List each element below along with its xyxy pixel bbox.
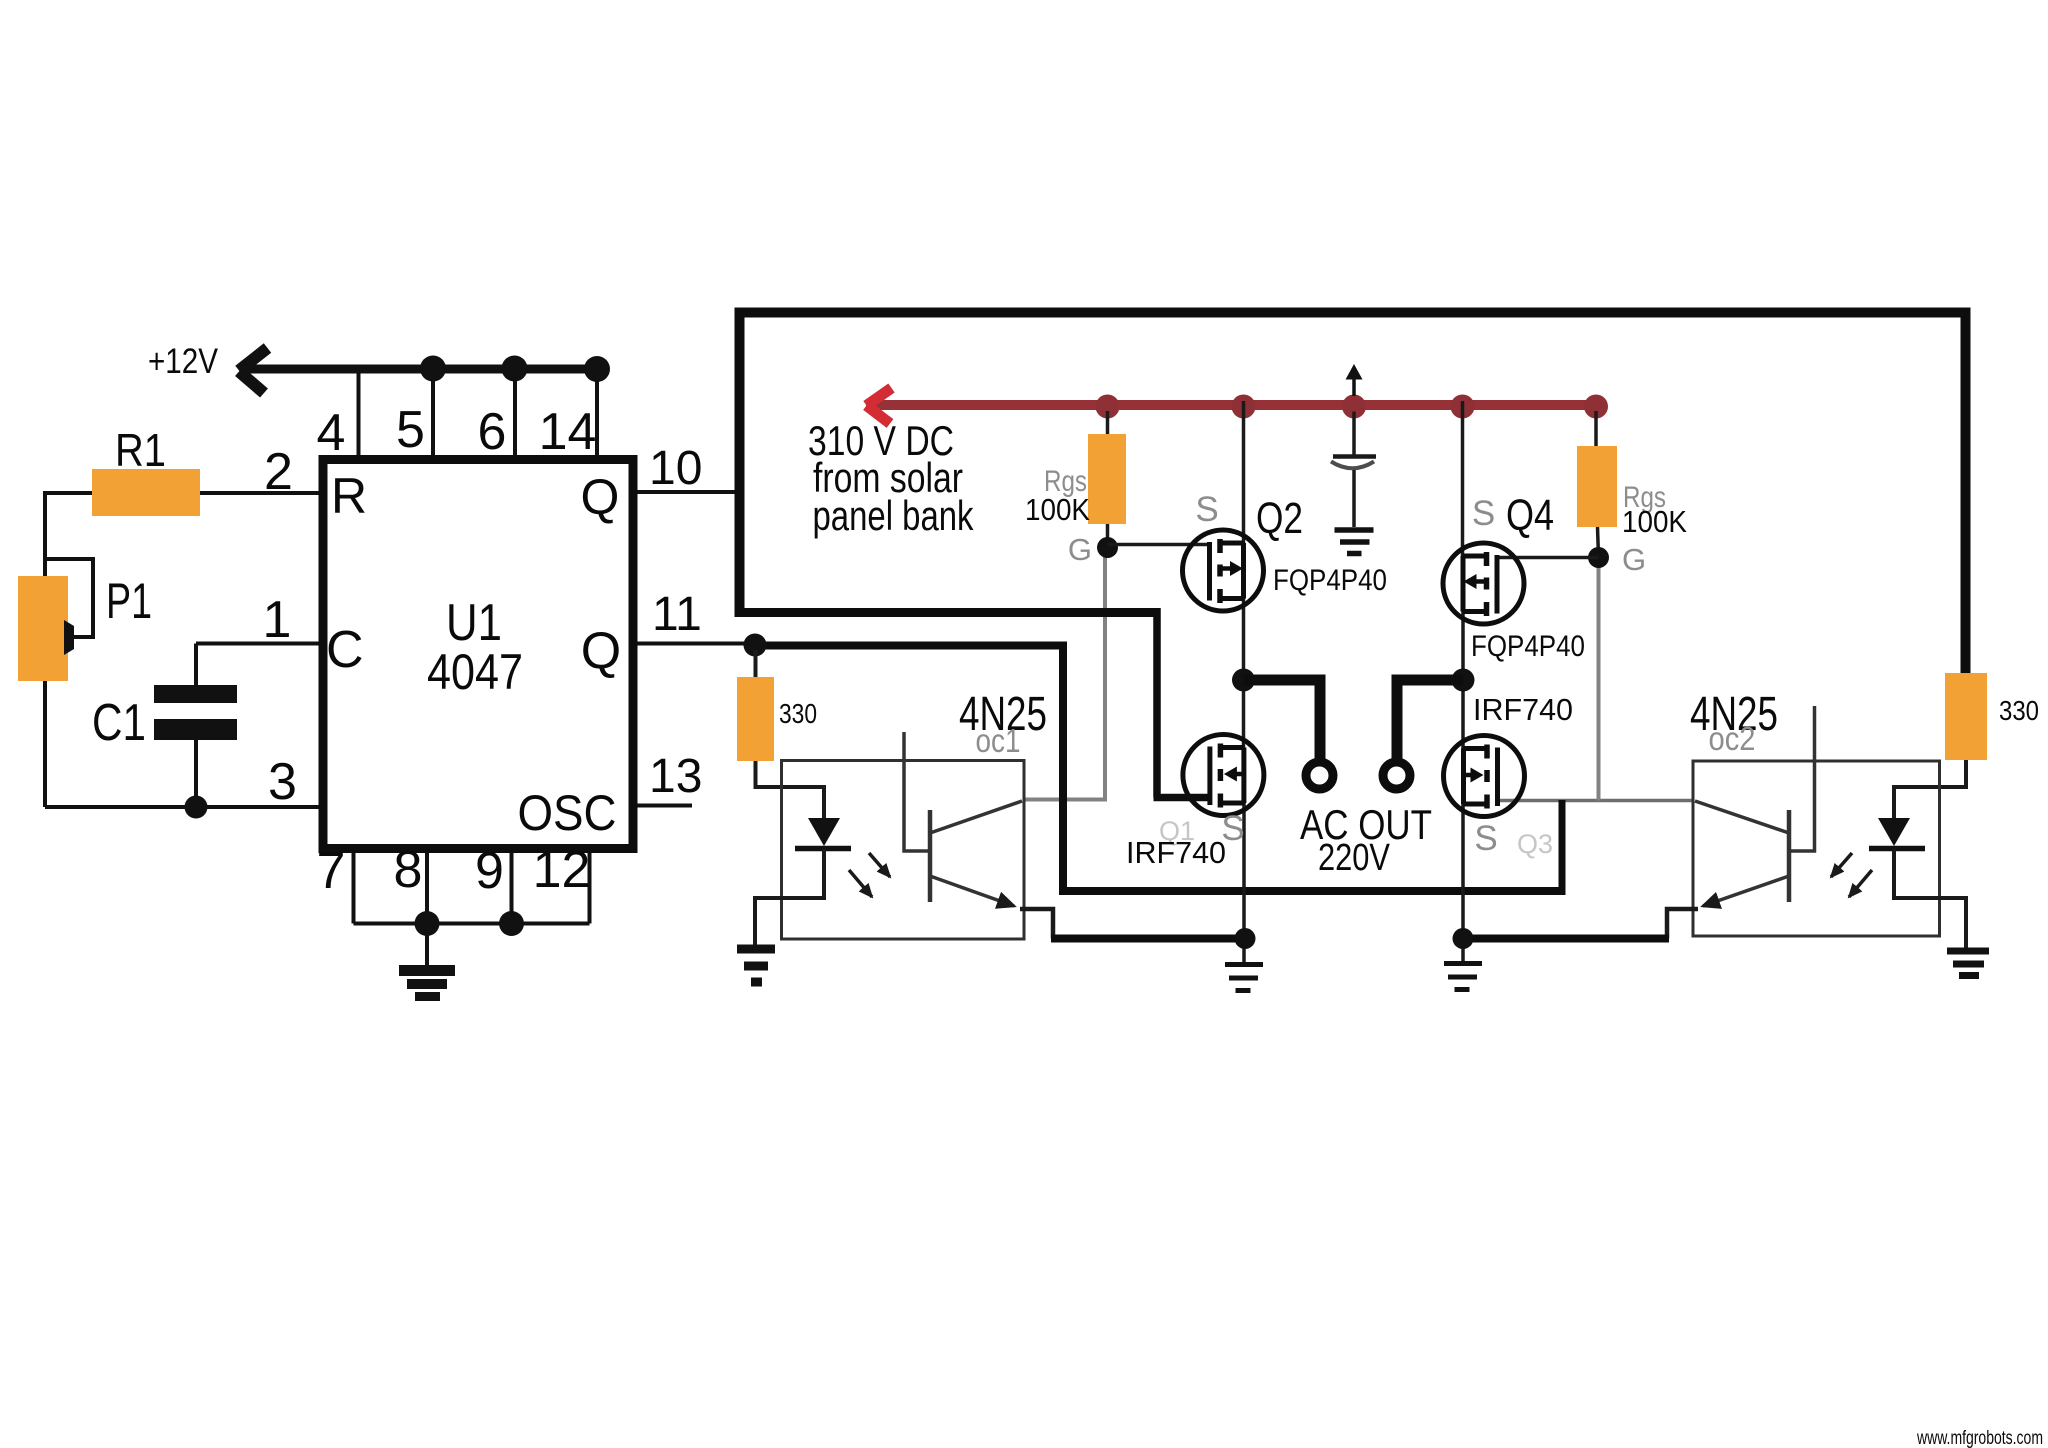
oc2 emitter lead with arrow <box>1703 876 1789 906</box>
wire gray oc2 collector to Q4 gate node <box>1597 558 1601 801</box>
wire pin11 node to 330 left <box>754 650 758 678</box>
svg-text:panel bank: panel bank <box>813 492 975 539</box>
wire oc2 emitter to Q3 source <box>1466 935 1669 943</box>
resistor 330 left <box>737 677 774 761</box>
svg-text:220V: 220V <box>1318 837 1391 879</box>
red junction dot Rgs right <box>1584 395 1608 419</box>
wire C1 bottom lead <box>194 740 198 807</box>
LED oc2 cathode bar <box>1869 846 1925 852</box>
svg-text:+12V: +12V <box>148 342 219 381</box>
wire 330 left to oc1 LED anode <box>756 761 825 820</box>
wire corner drop to Q1 gate <box>1153 608 1161 798</box>
wire left vertical <box>43 491 47 807</box>
oc1 phototransistor base bar <box>928 810 933 902</box>
junction dot pin11 node <box>744 634 767 657</box>
wire loop left edge (pin10 riser) <box>735 308 745 617</box>
svg-text:9: 9 <box>475 842 504 900</box>
wire capacitor bottom lead <box>1352 470 1356 527</box>
LED oc2 anode triangle <box>1878 818 1910 846</box>
LED oc1 cathode bar <box>795 846 851 852</box>
red junction dot Rgs left <box>1096 395 1120 419</box>
P1 wiper tab <box>64 620 74 655</box>
wire Q3 drain lead <box>1461 680 1465 749</box>
wire pin11 thick route to Q3 gate <box>755 646 1566 892</box>
wire pin7 stub <box>352 853 356 924</box>
wire pin6 stub <box>513 369 517 455</box>
svg-text:Q: Q <box>581 622 621 680</box>
svg-text:OSC: OSC <box>518 785 617 841</box>
oc2 collector lead <box>1695 801 1789 833</box>
LED oc1 anode triangle <box>808 818 840 846</box>
wire pin14 stub <box>595 369 599 455</box>
svg-text:12: 12 <box>533 841 591 899</box>
svg-text:FQP4P40: FQP4P40 <box>1273 564 1387 597</box>
wire C1 to pin1 <box>196 642 319 646</box>
wire oc1 emitter exit step <box>1020 909 1053 939</box>
svg-text:R: R <box>331 468 367 524</box>
capacitor C1 top plate <box>154 685 237 703</box>
310V DC red bus <box>866 400 1596 410</box>
resistor 330 right <box>1945 673 1987 760</box>
junction dot Q3 source node <box>1453 928 1474 949</box>
capacitor curved plate <box>1331 462 1374 469</box>
wire bus to Rgs right <box>1594 411 1598 447</box>
oc1 collector lead <box>930 801 1022 833</box>
wire pin10 <box>638 490 737 494</box>
svg-text:14: 14 <box>539 403 597 461</box>
wire Q2 gate <box>1108 543 1212 547</box>
junction dot G right <box>1588 547 1609 568</box>
svg-text:IRF740: IRF740 <box>1473 692 1573 727</box>
red junction dot capacitor tap <box>1342 395 1366 419</box>
svg-text:100K: 100K <box>1025 492 1090 527</box>
wire +12V rail <box>240 365 598 374</box>
terminal ring AC out left <box>1306 762 1333 789</box>
junction dot pin5 rail <box>420 356 446 382</box>
svg-text:Q3: Q3 <box>1517 829 1553 859</box>
oc1 emitter lead with arrow <box>930 876 1014 906</box>
wire Q4 gate <box>1498 556 1599 560</box>
svg-text:330: 330 <box>1999 695 2039 726</box>
oc2 light arrows <box>1831 853 1852 877</box>
junction dot node C1-pin3 <box>185 796 208 819</box>
oc1 base stub <box>904 732 929 851</box>
wire gray oc1 collector to Q2 gate node <box>1025 546 1105 800</box>
wire P1 wiper loop <box>45 559 93 637</box>
svg-text:IRF740: IRF740 <box>1126 835 1226 870</box>
svg-text:FQP4P40: FQP4P40 <box>1471 630 1585 663</box>
wire pin5 stub <box>431 369 435 455</box>
oc2 base stub <box>1790 706 1815 851</box>
svg-text:13: 13 <box>649 750 702 803</box>
svg-text:7: 7 <box>317 842 346 900</box>
+12V power arrow <box>239 348 268 393</box>
wire thick riser to Q3 gate <box>1559 800 1566 891</box>
svg-text:11: 11 <box>652 588 702 641</box>
wire loop right edge down to 330 resistor <box>1961 308 1971 675</box>
wire pin11 <box>638 642 753 646</box>
svg-text:C: C <box>326 621 364 679</box>
svg-text:C1: C1 <box>92 694 146 752</box>
svg-text:5: 5 <box>396 401 425 459</box>
svg-text:P1: P1 <box>106 573 152 629</box>
svg-text:6: 6 <box>478 403 507 461</box>
ground oc1 <box>737 949 775 982</box>
wire U1 ground lead <box>425 924 429 967</box>
IC U1 4047 body <box>323 460 633 849</box>
svg-text:10: 10 <box>649 442 702 495</box>
red junction dot Q2 source <box>1232 395 1256 419</box>
resistor R1 <box>92 469 200 516</box>
ground oc2 <box>1947 951 1989 976</box>
wire Q4 drain lead <box>1461 612 1465 681</box>
svg-text:1: 1 <box>263 591 292 649</box>
wire capacitor top lead <box>1352 412 1356 456</box>
terminal ring AC out right <box>1383 762 1410 789</box>
optocoupler oc2 4N25 box <box>1693 761 1940 936</box>
oc1 light arrows <box>869 853 890 877</box>
ground Q1 source <box>1225 965 1263 991</box>
svg-text:G: G <box>1068 532 1092 567</box>
wire oc1 LED cathode to ground <box>755 849 824 946</box>
junction dot G left <box>1097 537 1118 558</box>
svg-text:Q4: Q4 <box>1506 491 1554 540</box>
wire bus to Rgs left <box>1106 411 1110 435</box>
svg-text:S: S <box>1474 819 1497 858</box>
wire left to R1 <box>43 491 92 495</box>
svg-text:4: 4 <box>317 404 346 462</box>
wire Rgs left to G node <box>1106 524 1110 547</box>
oc2 phototransistor base bar <box>1787 810 1792 902</box>
ground capacitor <box>1335 530 1374 554</box>
svg-text:S: S <box>1195 490 1218 529</box>
ground Q3 source <box>1444 964 1482 990</box>
svg-text:R1: R1 <box>115 424 166 476</box>
wire pin8 stub <box>425 853 429 924</box>
wire R1 to pin2 <box>200 491 319 495</box>
svg-text:4047: 4047 <box>427 644 523 700</box>
transistor Q1 IRF740 <box>1183 735 1264 816</box>
wire AC out right branch <box>1397 680 1463 760</box>
transistor Q3 IRF740 <box>1444 736 1525 817</box>
svg-text:Q2: Q2 <box>1256 494 1303 543</box>
wire Q2 drain lead <box>1242 599 1246 681</box>
svg-text:G: G <box>1622 542 1646 577</box>
junction dot Q1 source node <box>1235 928 1256 949</box>
svg-text:3: 3 <box>268 753 297 811</box>
svg-text:330: 330 <box>779 698 817 729</box>
wire loop bottom edge <box>735 608 1161 617</box>
capacitor C1 bottom plate <box>154 719 237 740</box>
junction dot pin14 rail <box>584 356 610 382</box>
svg-text:8: 8 <box>394 841 423 899</box>
wire Q1 source lead <box>1242 803 1246 967</box>
wire pin13 stub <box>638 804 693 808</box>
up arrow above bus <box>1352 371 1356 396</box>
junction dot pin8 rail <box>415 911 440 936</box>
wire loop top edge <box>735 308 1971 318</box>
wire Q2 source lead <box>1242 401 1246 543</box>
junction dot pin6 rail <box>502 356 528 382</box>
wire gray Q3 gate / oc2 collector run <box>1499 799 1695 803</box>
wire Q4 source lead <box>1461 401 1465 556</box>
junction dot pin9 rail <box>499 911 524 936</box>
wire Rgs right to G node <box>1598 527 1599 557</box>
wire Q3 source lead <box>1461 804 1465 967</box>
svg-text:www.mfgrobots.com: www.mfgrobots.com <box>1916 1428 2043 1448</box>
wire Q1 gate feed <box>1154 794 1212 802</box>
wire pin9 stub <box>510 853 514 924</box>
wire Q1 drain lead <box>1242 680 1246 748</box>
transistor Q2 FQP4P40 <box>1183 530 1264 611</box>
wire pin12 stub <box>588 853 592 924</box>
wire C1 top lead <box>194 644 198 687</box>
red junction dot Q4 source <box>1451 395 1475 419</box>
wire oc1 emitter to Q1 source <box>1051 935 1240 943</box>
wire bottom pins rail <box>354 922 590 926</box>
capacitor top plate <box>1333 454 1376 459</box>
potentiometer P1 <box>18 576 68 681</box>
svg-text:Q: Q <box>581 469 620 525</box>
wire 330 right to oc2 LED anode <box>1894 760 1966 820</box>
wire pin4 stub <box>357 369 361 455</box>
transistor Q4 FQP4P40 <box>1443 543 1524 624</box>
junction dot Q4-Q3 drain node <box>1452 669 1475 692</box>
svg-text:100K: 100K <box>1622 504 1687 539</box>
svg-text:S: S <box>1472 494 1495 533</box>
wire pin3 horizontal <box>45 805 319 809</box>
junction dot Q2-Q1 drain node <box>1232 669 1255 692</box>
optocoupler oc1 4N25 box <box>782 761 1025 940</box>
resistor Rgs right 100K <box>1577 446 1617 527</box>
wire oc2 LED cathode to ground <box>1894 849 1966 948</box>
red bus arrowhead <box>867 388 892 424</box>
svg-text:oc2: oc2 <box>1709 720 1756 757</box>
svg-text:oc1: oc1 <box>976 722 1021 759</box>
wire AC out left branch <box>1244 680 1321 760</box>
resistor Rgs left 100K <box>1088 434 1126 524</box>
svg-text:2: 2 <box>264 443 293 501</box>
wire oc2 emitter exit step <box>1667 909 1698 939</box>
ground U1 <box>399 965 455 1001</box>
